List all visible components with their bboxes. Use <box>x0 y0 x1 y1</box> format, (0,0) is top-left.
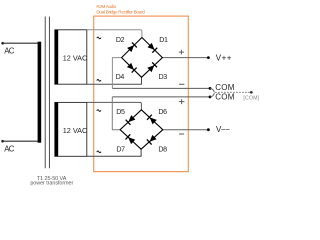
secondary winding box 2 (12 VAC bottom) <box>55 102 87 156</box>
svg-text:D2: D2 <box>116 36 125 44</box>
svg-text:D5: D5 <box>116 108 125 116</box>
diode D4 <box>127 63 137 73</box>
node AC bottom <box>1 140 4 143</box>
diode D7 <box>126 134 136 144</box>
diode D5 <box>126 115 136 125</box>
svg-text:V++: V++ <box>216 54 232 63</box>
wire box1 top edge to bridge1 top vertex <box>87 30 142 38</box>
node AC top <box>1 42 4 45</box>
label plus bridge2 <box>179 99 185 104</box>
ac terminal tilde top-box lower <box>97 80 101 82</box>
board outline (RJM Audio Dual Bridge Rectifier Board) <box>94 16 189 172</box>
bridge rectifier 1 diamond <box>122 38 163 78</box>
wire bridge2 left vertex up (COM plus branch) <box>112 97 120 130</box>
svg-text:AC: AC <box>4 144 15 153</box>
svg-text:D8: D8 <box>158 146 167 154</box>
diode D1 <box>147 43 157 53</box>
wire box1 bottom edge to bridge1 bottom vertex <box>87 77 142 84</box>
wire COM upper run <box>112 87 210 89</box>
brace joining COM nodes <box>210 88 214 97</box>
diode D3 <box>147 62 157 72</box>
label plus bridge1 <box>179 50 184 55</box>
wire AC bottom to primary <box>3 140 39 142</box>
svg-text:D7: D7 <box>116 146 125 154</box>
svg-text:D3: D3 <box>159 73 168 81</box>
secondary winding box 1 (12 VAC top) <box>55 30 87 84</box>
transformer core line 1 <box>44 17 46 169</box>
wire AC top to primary <box>3 42 39 44</box>
svg-text:V−−: V−− <box>216 125 230 134</box>
svg-text:D4: D4 <box>116 73 125 81</box>
wire bridge1 right vertex to V++ <box>162 57 208 59</box>
wire bridge1 left vertex down (COM minus branch) <box>112 58 121 89</box>
svg-text:12 VAC: 12 VAC <box>63 126 88 135</box>
wire bridge2 right vertex to V minus minus <box>163 129 208 131</box>
node COM lower <box>209 96 212 99</box>
svg-text:[COM]: [COM] <box>243 95 259 101</box>
bridge rectifier 2 diamond <box>120 110 163 149</box>
svg-text:D6: D6 <box>158 108 167 116</box>
svg-text:AC: AC <box>4 46 15 55</box>
dashed wire to external COM <box>215 91 250 93</box>
wire COM lower run <box>112 96 210 98</box>
ac terminal tilde bottom-box lower <box>97 151 101 153</box>
node COM upper <box>209 87 212 90</box>
label minus bridge1 <box>179 83 184 85</box>
svg-text:12 VAC: 12 VAC <box>63 53 88 62</box>
diode D8 <box>147 135 157 145</box>
diode D2 <box>127 42 137 52</box>
diode D6 <box>147 115 157 125</box>
svg-text:COM: COM <box>215 93 235 102</box>
svg-text:RJM Audio: RJM Audio <box>96 4 116 9</box>
ac terminal tilde bottom-box upper <box>97 110 101 112</box>
svg-text:D1: D1 <box>159 36 168 44</box>
label minus bridge2 <box>179 133 184 135</box>
transformer T1 primary winding bar <box>38 42 42 143</box>
wire box2 top edge to bridge2 top vertex <box>87 102 142 109</box>
node V minus minus <box>207 128 210 131</box>
node V++ <box>207 56 210 59</box>
wire box2 bottom edge to bridge2 bottom vertex <box>87 149 141 156</box>
transformer core line 2 <box>48 17 50 169</box>
node external COM <box>250 91 253 94</box>
svg-text:COM: COM <box>215 83 235 92</box>
svg-text:power transformer: power transformer <box>30 181 73 187</box>
svg-text:Dual Bridge Rectifier Board: Dual Bridge Rectifier Board <box>96 9 145 14</box>
ac terminal tilde top-box upper <box>97 37 101 39</box>
